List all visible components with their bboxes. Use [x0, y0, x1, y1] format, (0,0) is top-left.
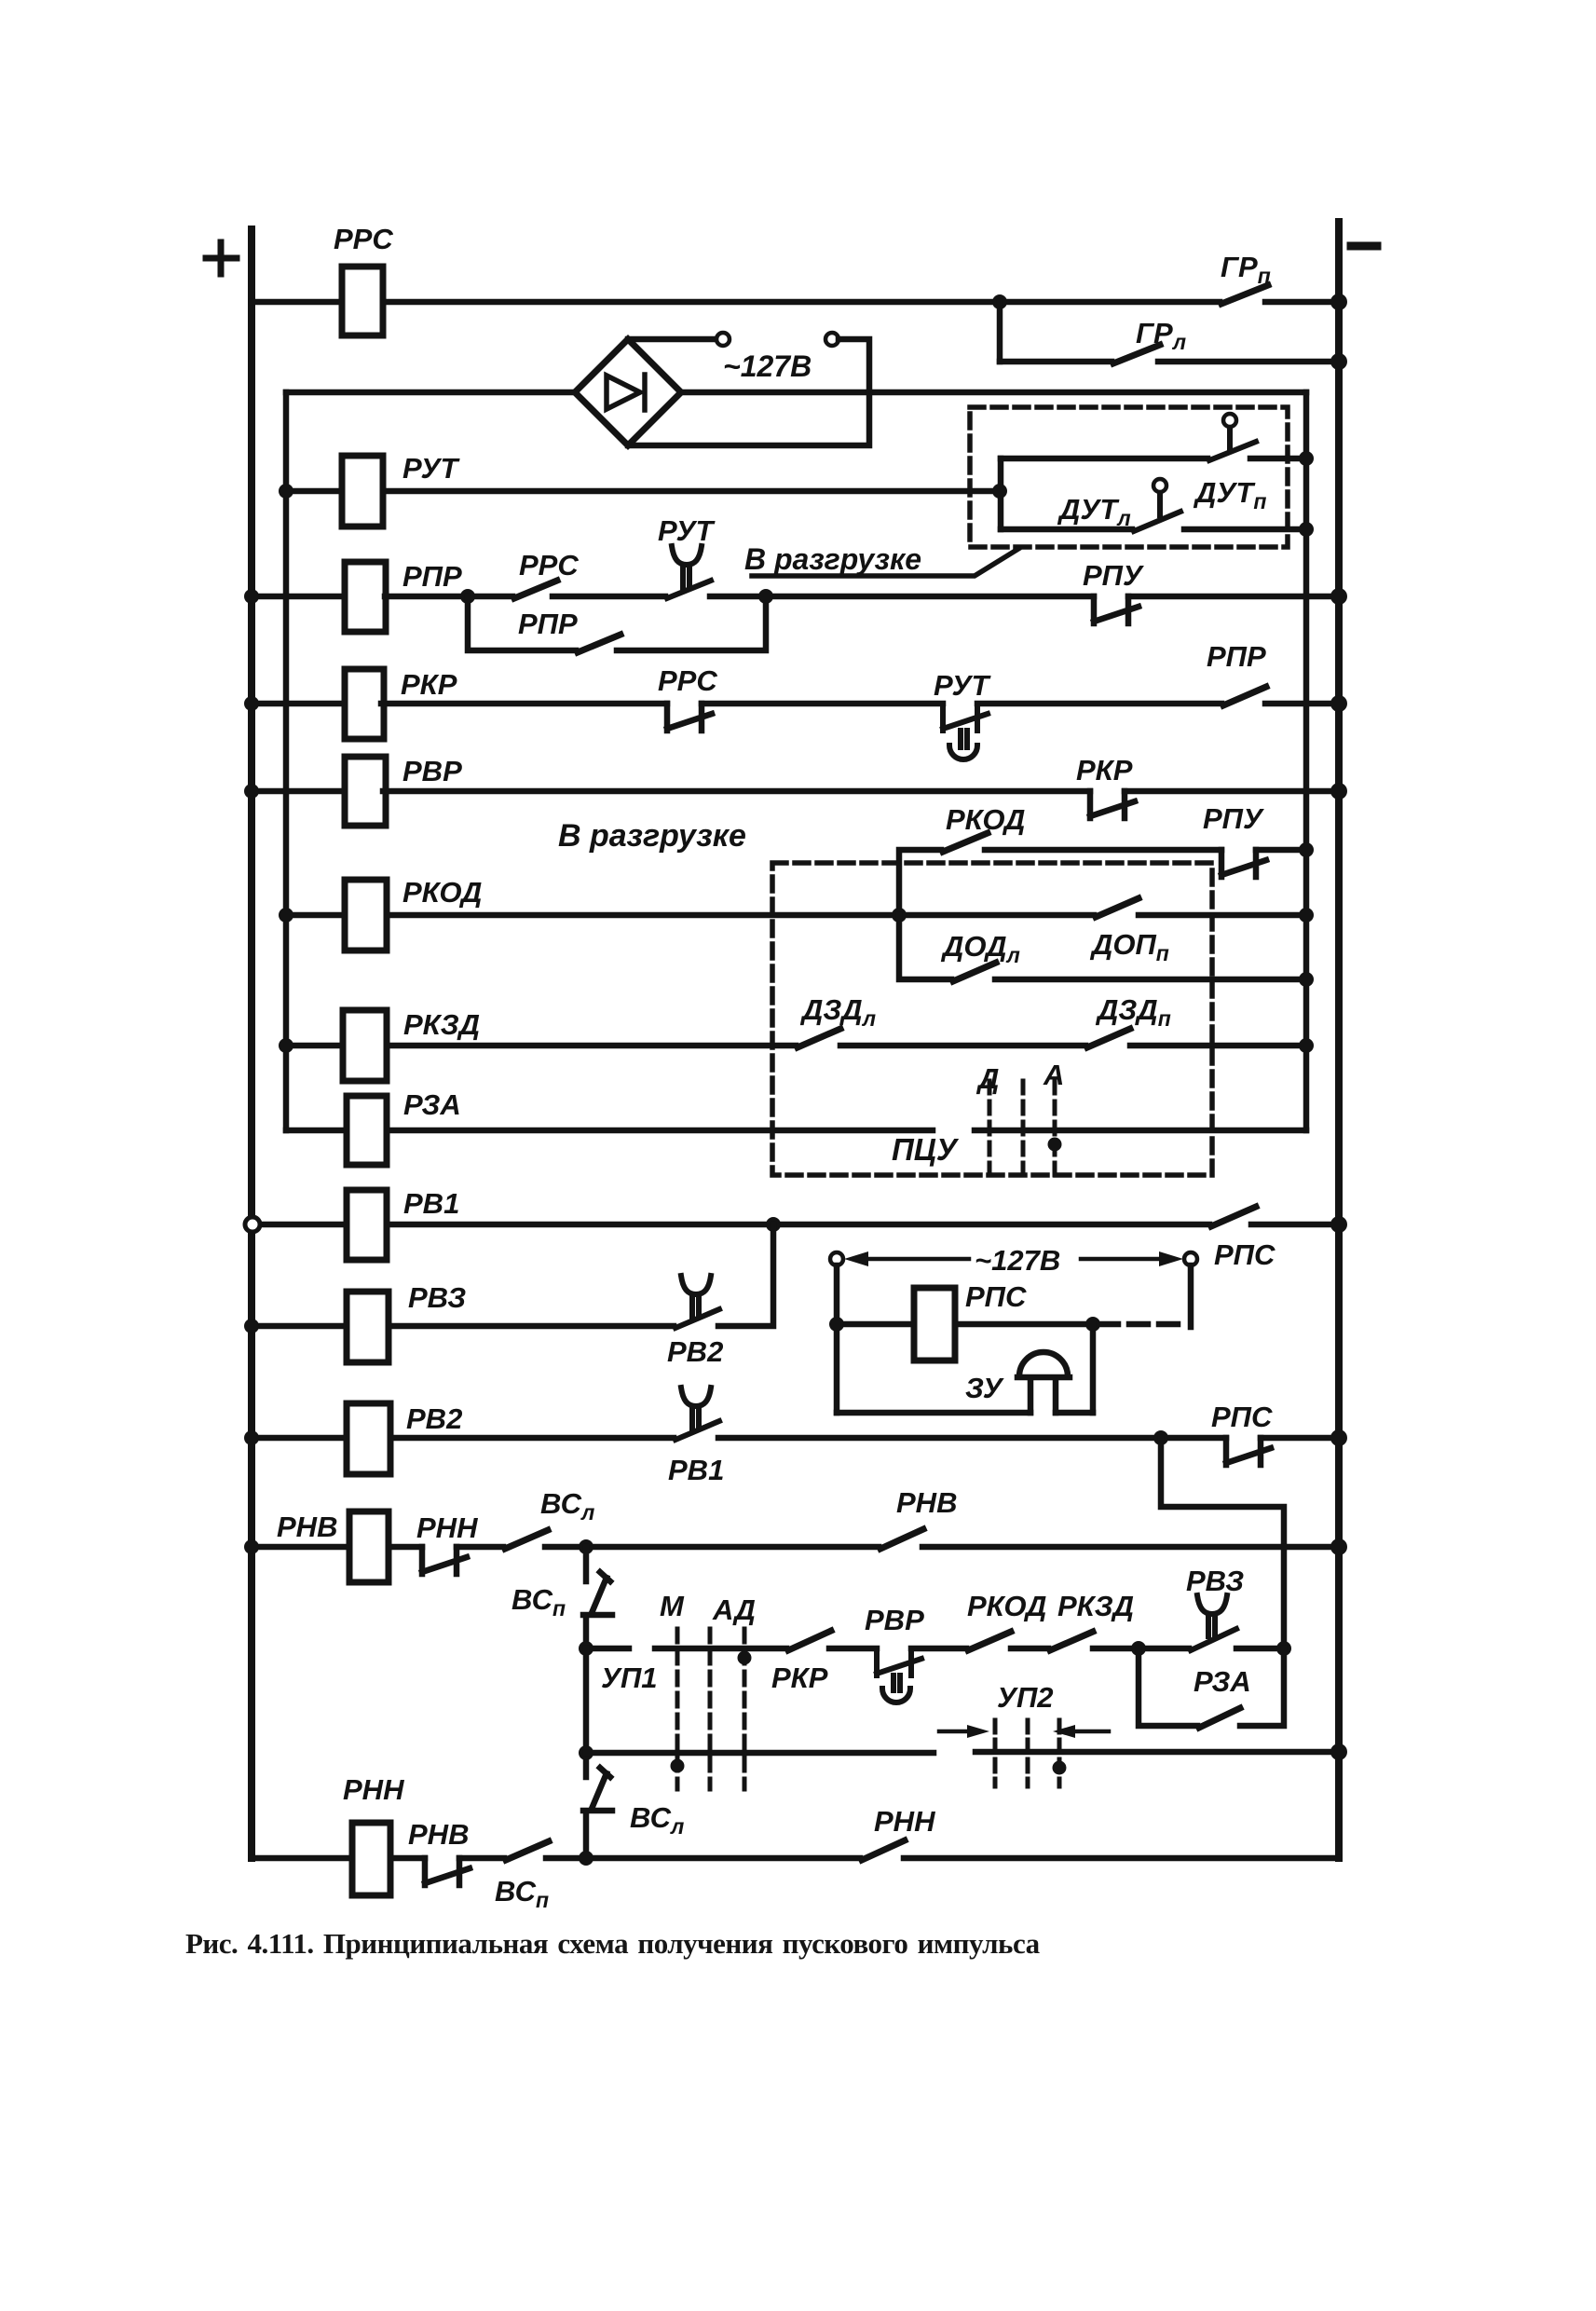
junction РПР branch rejoin — [758, 589, 773, 604]
contact ДУТп (NO with actuator) — [1209, 427, 1256, 460]
svg-text:РПР: РПР — [1207, 640, 1266, 673]
junction right bus / РКР rung — [1330, 695, 1347, 712]
node plus terminal (+) — [206, 242, 237, 274]
svg-text:РПУ: РПУ — [1083, 559, 1144, 592]
junction dot pin М / second line — [671, 1759, 685, 1773]
arrowhead УП2 right (points left) — [1053, 1725, 1075, 1738]
relay coil РЗА — [347, 1096, 387, 1165]
arrowhead left — [844, 1251, 868, 1266]
relay coil РНВ — [349, 1511, 389, 1582]
junction РКОД rung / inner vertical — [1299, 908, 1314, 923]
arrowhead right — [1159, 1251, 1183, 1266]
arrow to left РПС terminal — [869, 1257, 969, 1262]
contact РПР (NO on branch) — [578, 635, 621, 652]
svg-text:РНН: РНН — [416, 1511, 478, 1544]
svg-text:ДОДл: ДОДл — [940, 930, 1020, 967]
wire УП1 riser upper with ВСп contact — [583, 1547, 612, 1648]
wire secondary left vertical — [283, 392, 290, 1130]
svg-text:РВ1: РВ1 — [403, 1187, 459, 1220]
junction ДУТп line / inner vertical — [1299, 451, 1314, 466]
svg-text:РУТ: РУТ — [934, 669, 991, 702]
contact ДОДл (NO) — [953, 963, 996, 981]
contact РВР (NC time with anchor) — [877, 1648, 921, 1702]
contact РКР (NC on РВР rung) — [1090, 791, 1135, 818]
arrowhead УП2 left (points right) — [967, 1725, 989, 1738]
contact РНВ (NC on РНН rung) — [425, 1858, 470, 1885]
wire right supply bus (-) — [1335, 222, 1343, 1858]
contact РПС (NO on РВ1 rung) — [1211, 1207, 1256, 1226]
svg-text:РНН: РНН — [874, 1805, 935, 1838]
junction РНВ rung / УП1 riser — [579, 1539, 593, 1554]
junction right bus / РВ1 rung — [1330, 1216, 1347, 1233]
svg-text:ВСл: ВСл — [630, 1801, 684, 1839]
contact ДОПп (NO) — [1096, 898, 1139, 917]
junction left bus / РКР rung — [244, 696, 259, 711]
bell ЗУ — [1017, 1352, 1070, 1413]
contact ДУТл (NO with actuator) — [1134, 492, 1180, 531]
junction РВ2 rung / РПС branch — [1153, 1430, 1168, 1445]
terminal circle ДУТл actuator — [1153, 479, 1166, 492]
svg-text:РПС: РПС — [1214, 1238, 1275, 1271]
dashed box ДУТ sensors — [970, 407, 1288, 547]
svg-text:РРС: РРС — [658, 664, 717, 697]
wire bell loop — [837, 1410, 1093, 1416]
junction right bus / РВР rung — [1330, 783, 1347, 800]
svg-text:РВЗ: РВЗ — [1186, 1565, 1244, 1597]
svg-text:ДОПп: ДОПп — [1089, 928, 1169, 965]
svg-text:РКЗД: РКЗД — [403, 1008, 480, 1041]
contact РЗА (NO on branch) — [1199, 1708, 1240, 1728]
svg-text:РНВ: РНВ — [896, 1486, 957, 1519]
wire rung РУТ — [286, 488, 1000, 495]
contact РПС (NC on РВ2 rung) — [1226, 1438, 1271, 1465]
svg-text:РКЗД: РКЗД — [1057, 1590, 1134, 1622]
svg-text:Рис. 4.111. Принципиальная схе: Рис. 4.111. Принципиальная схема получен… — [185, 1927, 1041, 1960]
svg-text:РВР: РВР — [865, 1604, 924, 1636]
contact РПУ (NC on РКОД line) — [1221, 850, 1266, 877]
svg-text:ДУТп: ДУТп — [1193, 476, 1266, 513]
svg-text:РПУ: РПУ — [1203, 802, 1264, 835]
svg-text:ДЗДл: ДЗДл — [799, 993, 876, 1031]
junction right bus / РПР rung — [1330, 588, 1347, 605]
contact РУТ (time NO on РПР rung) — [667, 546, 711, 598]
svg-text:РКОД: РКОД — [946, 803, 1025, 836]
rectifier bridge VD1 (diamond) — [575, 339, 681, 445]
contact РРС (NO on РПР rung) — [514, 581, 557, 598]
svg-text:УП2: УП2 — [997, 1681, 1054, 1714]
contact РКОД (NO) — [943, 833, 988, 852]
svg-text:АД: АД — [712, 1593, 756, 1626]
terminal circle РПС supply left — [830, 1252, 843, 1265]
wire rung РНВ — [252, 1544, 1339, 1551]
contact РВ1 (time NO on РВ2 rung) — [675, 1388, 719, 1440]
svg-text:РВ2: РВ2 — [667, 1335, 723, 1368]
svg-text:ЗУ: ЗУ — [965, 1372, 1004, 1404]
svg-text:В разгрузке: В разгрузке — [744, 542, 921, 576]
relay coil РКЗД — [343, 1010, 387, 1081]
contact РВЗ (time NO on УП1 line) — [1191, 1595, 1236, 1650]
wire ДОДл line — [899, 915, 1306, 979]
relay coil РУТ — [342, 456, 383, 526]
relay coil РКОД — [345, 880, 387, 950]
wire rung РВР — [252, 788, 1339, 795]
contact РНН (NC on РНВ rung) — [422, 1547, 467, 1574]
junction РКОД rung branch — [892, 908, 907, 923]
wire rung РРС (top) — [252, 299, 1339, 306]
svg-text:РВР: РВР — [402, 755, 462, 787]
wire РЗА branch loop — [1139, 1648, 1284, 1726]
node minus terminal (-) — [1351, 242, 1377, 251]
svg-text:ДУТл: ДУТл — [1057, 493, 1131, 530]
contact ВСп (NO on РНН rung) — [506, 1841, 549, 1860]
svg-text:РРС: РРС — [334, 223, 393, 255]
wire left supply bus (+) — [248, 229, 255, 1858]
relay coil РКР — [345, 669, 384, 739]
junction secondary vertical / РКЗД rung — [279, 1038, 293, 1053]
svg-text:А: А — [1043, 1059, 1064, 1091]
junction РКОД line / inner vertical — [1299, 842, 1314, 857]
junction on РРС rung at ГР branch — [992, 294, 1007, 309]
terminal circle AC right — [825, 333, 839, 346]
connector pins ПЦУ (dashed) — [989, 1081, 1055, 1176]
contact РНН (NO on РНН rung) — [862, 1840, 905, 1860]
junction РВ1 rung / РВ3 riser — [766, 1217, 781, 1232]
wire ДУТп line — [1001, 456, 1306, 462]
svg-text:РНН: РНН — [343, 1773, 404, 1806]
wire РКОД contact line — [899, 850, 1306, 915]
svg-text:ГРл: ГРл — [1136, 317, 1186, 354]
relay coil РРС — [342, 267, 383, 335]
junction left bus / РВР rung — [244, 784, 259, 799]
svg-text:РНВ: РНВ — [408, 1818, 469, 1851]
terminal circle РПС supply right — [1184, 1252, 1197, 1265]
svg-text:РПР: РПР — [518, 608, 578, 640]
svg-text:РЗА: РЗА — [403, 1088, 461, 1121]
svg-text:~127В: ~127В — [975, 1244, 1060, 1277]
relay coil РПС — [914, 1288, 955, 1361]
junction УП1 line right / РПС branch — [1276, 1641, 1291, 1656]
junction secondary vertical / РКОД rung — [279, 908, 293, 923]
wire РПС coil line — [837, 1265, 1093, 1413]
junction left bus / РПР rung — [244, 589, 259, 604]
relay coil РПР — [345, 562, 386, 632]
junction right bus / РНВ rung — [1330, 1538, 1347, 1555]
svg-text:РКОД: РКОД — [402, 876, 482, 909]
junction ДОДл line / inner vertical — [1299, 972, 1314, 987]
junction РПР rung branch point — [460, 589, 475, 604]
connector pins УП1 (dashed) — [677, 1629, 744, 1789]
svg-text:В разгрузке: В разгрузке — [558, 818, 746, 854]
junction РПС coil left — [829, 1317, 844, 1332]
relay coil РНН — [352, 1823, 390, 1895]
junction dot on pin А — [1048, 1138, 1062, 1152]
junction РКЗД rung / inner vertical — [1299, 1038, 1314, 1053]
wire bridge AC right lead — [628, 339, 869, 445]
wire rung РВ2 — [252, 1435, 1339, 1442]
contact РПУ (NC on РПР rung) — [1094, 596, 1139, 623]
contact ДЗДл (NO) — [798, 1029, 840, 1047]
svg-text:РВЗ: РВЗ — [408, 1281, 466, 1314]
contact РКР (NO on УП1 line) — [788, 1631, 831, 1650]
relay coil РВ3 — [347, 1292, 389, 1362]
terminal circle AC left — [716, 333, 730, 346]
contact РРС (NC on РКР rung) — [667, 704, 712, 731]
dashed box ПЦУ — [772, 863, 1212, 1175]
svg-text:РКР: РКР — [771, 1661, 828, 1694]
contact ДЗДп (NO) — [1087, 1029, 1130, 1047]
svg-text:РКР: РКР — [401, 668, 457, 701]
contact РКОД (NO on УП1 line) — [968, 1632, 1011, 1650]
junction right bus / РРС rung — [1330, 294, 1347, 310]
junction left bus / РВ3 rung — [244, 1319, 259, 1333]
relay coil РВ2 — [347, 1403, 390, 1474]
svg-text:М: М — [660, 1590, 685, 1622]
junction ring left bus / РВ1 rung — [245, 1217, 260, 1232]
leader line for В разгрузке note — [752, 549, 1018, 576]
wire rung РКР — [252, 701, 1339, 707]
junction right bus / ГРл line — [1330, 353, 1347, 370]
contact ГРп (NO) — [1221, 285, 1268, 304]
svg-text:РПС: РПС — [965, 1280, 1027, 1313]
junction РУТ rung / ДУТ box — [992, 484, 1007, 499]
junction left bus / РНВ rung — [244, 1539, 259, 1554]
junction secondary vertical / РУТ rung — [279, 484, 293, 499]
svg-text:РУТ: РУТ — [402, 452, 460, 485]
svg-text:ВСп: ВСп — [495, 1875, 549, 1912]
wire rung РПР — [252, 594, 1339, 600]
contact РУТ (NC time with anchor on РКР rung) — [943, 704, 988, 759]
svg-text:РВ1: РВ1 — [668, 1454, 724, 1486]
contact РПР (NO on РКР rung) — [1223, 687, 1266, 705]
arrow to right РПС terminal — [1081, 1257, 1161, 1262]
junction left bus / РВ2 rung — [244, 1430, 259, 1445]
contact РНВ (NO on РНВ rung) — [880, 1529, 923, 1549]
contact ВСл (NO on РНВ rung) — [505, 1530, 548, 1549]
svg-text:РКР: РКР — [1076, 754, 1133, 786]
svg-text:РКОД: РКОД — [967, 1590, 1046, 1622]
svg-text:ДЗДп: ДЗДп — [1095, 993, 1171, 1031]
junction dot pin АД / УП1 line — [738, 1651, 752, 1665]
svg-text:ПЦУ: ПЦУ — [892, 1132, 960, 1167]
svg-text:РУТ: РУТ — [658, 514, 716, 547]
wire second multiplex line — [586, 1752, 1339, 1753]
svg-text:РВ2: РВ2 — [406, 1402, 462, 1435]
junction РПС coil right — [1085, 1317, 1100, 1332]
junction УП1 line / РЗА branch — [1131, 1641, 1146, 1656]
contact РВ2 (time NO on РВ3 rung) — [675, 1276, 719, 1328]
wire ГРл line — [1000, 359, 1339, 365]
svg-text:УП1: УП1 — [601, 1661, 658, 1694]
contact ГРл (NO) — [1113, 345, 1160, 363]
junction ДУТл line / inner vertical — [1299, 522, 1314, 537]
diode symbol inside bridge — [607, 375, 645, 410]
svg-text:РНВ: РНВ — [277, 1511, 337, 1543]
wire rung РКОД — [286, 912, 1306, 919]
svg-text:ГРп: ГРп — [1221, 251, 1271, 288]
svg-text:РЗА: РЗА — [1194, 1665, 1251, 1698]
relay coil РВ1 — [347, 1190, 387, 1260]
wire РПР self-hold branch — [468, 596, 766, 650]
wire rung РВ3 — [252, 1224, 773, 1326]
junction second line left — [579, 1745, 593, 1760]
svg-text:ВСл: ВСл — [540, 1487, 594, 1525]
junction right bus / РВ2 rung — [1330, 1429, 1347, 1446]
wire ГР branch vertical — [997, 302, 1003, 362]
svg-text:РРС: РРС — [519, 549, 579, 581]
junction right bus / second line — [1330, 1744, 1347, 1760]
wire РПС branch from РВ2 rung — [1161, 1438, 1284, 1648]
wire rung РНН (bottom) — [252, 1855, 1339, 1862]
terminal circle ДУТп actuator — [1223, 414, 1236, 427]
connector УП2 arrows — [939, 1730, 1109, 1734]
svg-text:ВСп: ВСп — [512, 1583, 566, 1620]
wire УП1 riser lower with ВСл contact — [583, 1648, 612, 1858]
wire rung РКЗД — [286, 1043, 1306, 1049]
junction dot pin УП2 / second line — [1053, 1761, 1067, 1775]
contact РКЗД (NO on УП1 line) — [1050, 1632, 1093, 1650]
svg-text:~127В: ~127В — [723, 349, 812, 383]
wire right inner vertical — [1303, 392, 1310, 1130]
wire bridge rung — [286, 390, 1306, 396]
junction УП1 line left — [579, 1641, 593, 1656]
svg-text:РПР: РПР — [402, 560, 462, 593]
junction РНН rung / riser — [579, 1851, 593, 1866]
svg-text:Д: Д — [975, 1062, 999, 1095]
relay coil РВР — [345, 757, 386, 826]
wire ДУТ common left edge — [998, 458, 1004, 529]
wire УП1 contact line — [586, 1646, 1284, 1652]
dashed wire to РПС right terminal — [1099, 1321, 1185, 1328]
wire ДУТл line — [1001, 526, 1306, 533]
wire bridge AC top lead — [628, 336, 716, 343]
wire rung РВ1 — [258, 1222, 1339, 1228]
svg-text:РПС: РПС — [1211, 1401, 1273, 1433]
connector pins УП2 (dashed) — [995, 1720, 1059, 1786]
wire rung РЗА — [286, 1128, 1306, 1134]
